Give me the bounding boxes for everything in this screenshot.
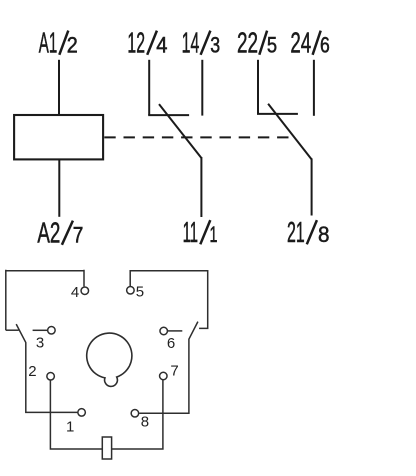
- svg-text:21: 21: [287, 217, 305, 249]
- coil K1 (relay coil rectangle): [14, 115, 103, 159]
- label A1/2: [39, 28, 78, 60]
- contact CO2: terminal 24/6 lead: [313, 60, 315, 116]
- svg-text:3: 3: [36, 334, 44, 351]
- wire A1 lead: [58, 60, 60, 115]
- svg-text:8: 8: [318, 222, 330, 247]
- contact CO1: common lead to 11/1: [200, 157, 202, 217]
- contact CO1: terminal 14/3 lead: [201, 60, 203, 116]
- pin 2 circle: [47, 373, 55, 381]
- center keyway circle: [87, 333, 132, 386]
- socket outline: left shelf: [6, 329, 19, 331]
- socket outline: top-left edge: [6, 270, 84, 330]
- svg-text:A2: A2: [37, 218, 60, 250]
- svg-text:5: 5: [267, 33, 277, 58]
- contact CO1: NC fixed contact bar: [148, 114, 189, 116]
- pin 7 circle: [160, 372, 168, 380]
- svg-text:12: 12: [127, 28, 145, 60]
- pin 6 stub wire: [168, 330, 182, 332]
- pin 6 circle: [160, 327, 168, 335]
- svg-text:22: 22: [237, 28, 258, 60]
- wire A2 lead: [58, 159, 60, 216]
- pin 1 circle: [78, 409, 86, 417]
- svg-text:4: 4: [156, 33, 167, 58]
- bottom coil element rectangle: [102, 437, 111, 459]
- svg-text:8: 8: [141, 414, 149, 431]
- label 21/8: [287, 217, 330, 249]
- svg-text:14: 14: [182, 28, 200, 60]
- right blade contact to pin 8: [139, 322, 198, 414]
- contact CO2: NC fixed contact bar: [257, 113, 298, 115]
- pin 3 circle: [48, 327, 56, 335]
- left blade contact to pin 1: [16, 324, 78, 412]
- label A2/7: [37, 218, 83, 250]
- label 24/6: [290, 28, 329, 60]
- svg-text:3: 3: [210, 33, 220, 58]
- contact CO1: moving blade: [159, 104, 201, 158]
- contact CO2: common lead to 21/8: [311, 158, 313, 215]
- pin 4 circle: [81, 287, 89, 295]
- svg-text:1: 1: [66, 419, 74, 436]
- label 22/5: [237, 28, 277, 60]
- svg-text:5: 5: [136, 283, 144, 300]
- contact CO1: terminal 12/4 lead: [148, 60, 150, 115]
- label 12/4: [127, 28, 167, 60]
- pin 5 circle: [127, 287, 135, 295]
- pin 3 stub wire: [33, 329, 48, 331]
- label 14/3: [182, 28, 220, 60]
- mechanical linkage (dashed actuator line): [104, 136, 293, 138]
- svg-text:2: 2: [67, 33, 78, 58]
- svg-text:2: 2: [28, 363, 36, 380]
- svg-text:6: 6: [167, 335, 175, 352]
- svg-text:7: 7: [170, 362, 178, 379]
- svg-text:7: 7: [73, 223, 84, 248]
- svg-text:6: 6: [320, 33, 330, 58]
- coil wire pin2 - fuse - pin7: [50, 380, 162, 449]
- svg-text:1: 1: [210, 222, 218, 247]
- socket outline: top-right edge: [130, 271, 208, 329]
- label 11/1: [183, 217, 218, 249]
- pin 8 circle: [131, 410, 139, 418]
- svg-text:A1: A1: [39, 28, 58, 60]
- contact CO2: moving blade: [268, 104, 312, 160]
- contact CO2: terminal 22/5 lead: [257, 60, 259, 114]
- svg-text:11: 11: [183, 217, 199, 249]
- svg-text:4: 4: [71, 284, 79, 301]
- svg-text:24: 24: [290, 28, 311, 60]
